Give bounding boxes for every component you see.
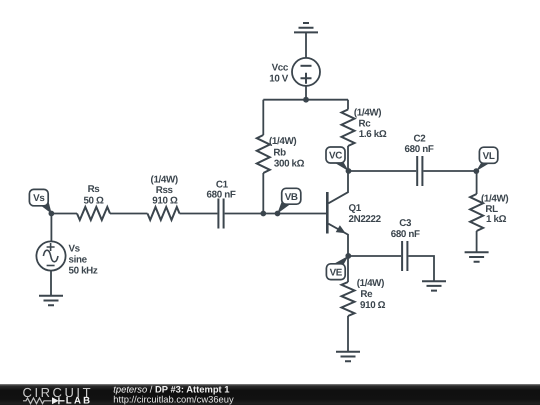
voltage source Vcc 10 V	[292, 58, 320, 86]
wire VE to Re	[347, 256, 349, 282]
logo diode	[52, 397, 59, 404]
voltage source Vs sine	[36, 241, 65, 270]
svg-text:Rb: Rb	[273, 147, 286, 158]
node Vs junction dot	[49, 211, 55, 217]
wire Vs source to ground	[50, 271, 52, 296]
svg-text:300 kΩ: 300 kΩ	[274, 158, 305, 169]
label Vs sine 50 kHz	[69, 244, 98, 277]
svg-text:C3: C3	[399, 218, 412, 229]
resistor Rss	[148, 207, 180, 220]
wire top rail	[263, 99, 348, 101]
label Rb 300 kΩ (1/4W)	[269, 136, 305, 169]
node flag VL	[476, 147, 498, 171]
svg-text:(1/4W): (1/4W)	[151, 175, 178, 186]
svg-text:(1/4W): (1/4W)	[481, 193, 508, 204]
svg-text:RL: RL	[485, 204, 498, 215]
resistor RL	[470, 194, 483, 231]
svg-text:1.6 kΩ: 1.6 kΩ	[359, 129, 387, 140]
wire Rss to C1	[180, 213, 218, 215]
wire Vs node down to source	[50, 214, 52, 242]
wire Re to ground	[347, 316, 349, 352]
label Vcc 10 V	[269, 63, 289, 85]
resistor Rs	[77, 207, 110, 220]
wire Rs to Rss	[110, 213, 148, 215]
wire Rb to base rail	[262, 173, 264, 214]
svg-text:(1/4W): (1/4W)	[354, 107, 381, 118]
svg-text:2N2222: 2N2222	[349, 214, 382, 225]
wire VL to RL	[476, 171, 478, 194]
svg-text:VL: VL	[483, 151, 495, 162]
wire Vcc to top rail	[305, 86, 307, 100]
label Re 910 Ω (1/4W)	[357, 278, 386, 311]
label Rs 50 Ω	[83, 184, 104, 206]
svg-text:(1/4W): (1/4W)	[269, 136, 296, 147]
wire C3 to ground	[408, 256, 434, 281]
svg-text:10 V: 10 V	[269, 74, 289, 85]
label Rc 1.6 kΩ (1/4W)	[354, 107, 387, 140]
label Rss 910 Ω (1/4W)	[151, 175, 178, 207]
node flag VE	[326, 256, 348, 280]
wire top rail to Rb	[262, 100, 264, 135]
svg-text:VE: VE	[330, 267, 343, 278]
label C1 680 nF	[207, 179, 236, 200]
wire RL to ground	[476, 231, 478, 252]
transistor Q1 2N2222	[327, 171, 348, 256]
resistor Rc	[342, 110, 355, 147]
footer bar	[0, 384, 540, 405]
node flag VC	[326, 147, 349, 171]
svg-text:Q1: Q1	[349, 203, 362, 214]
svg-text:VB: VB	[285, 192, 298, 203]
label C3 680 nF	[391, 218, 420, 240]
node flag VB	[277, 188, 301, 214]
node VB junction dot	[275, 211, 281, 217]
capacitor C2	[417, 156, 422, 186]
wire Rc to VC node	[347, 146, 349, 171]
ground GND-Vs	[39, 296, 63, 305]
wire VC to C2	[349, 170, 417, 172]
svg-text:(1/4W): (1/4W)	[357, 278, 384, 289]
node VE junction dot	[345, 253, 351, 259]
svg-text:VC: VC	[329, 151, 342, 162]
wire Vs node to Rs	[51, 213, 77, 215]
svg-text:http://circuitlab.com/cw36euy: http://circuitlab.com/cw36euy	[113, 394, 234, 405]
svg-text:910 Ω: 910 Ω	[360, 300, 386, 311]
ground GND-Re	[336, 352, 360, 361]
svg-text:Vs: Vs	[69, 244, 81, 255]
svg-text:LAB: LAB	[66, 395, 93, 405]
svg-text:50 kHz: 50 kHz	[69, 266, 98, 277]
ground GND-C3	[422, 281, 446, 290]
node VL junction dot	[473, 168, 479, 174]
svg-text:Vs: Vs	[33, 193, 45, 204]
capacitor C1	[218, 199, 223, 229]
svg-text:680 nF: 680 nF	[391, 229, 420, 240]
svg-text:680 nF: 680 nF	[405, 144, 434, 155]
svg-text:Rs: Rs	[88, 184, 101, 195]
wire C2 to VL	[423, 170, 476, 172]
label Q1 2N2222	[349, 203, 382, 225]
wire C1 to Q1 base	[225, 213, 327, 215]
svg-text:50 Ω: 50 Ω	[83, 195, 104, 206]
svg-text:sine: sine	[69, 255, 88, 266]
ground GND-top (inverted, above Vcc)	[294, 23, 318, 32]
node junction at Vcc/top rail	[303, 97, 309, 103]
svg-text:910 Ω: 910 Ω	[152, 195, 178, 206]
svg-text:Re: Re	[360, 289, 373, 300]
svg-text:Rc: Rc	[359, 119, 372, 130]
capacitor C3	[402, 241, 407, 271]
svg-text:Vcc: Vcc	[272, 63, 289, 74]
node VC junction dot	[346, 168, 352, 174]
label RL 1 kΩ (1/4W)	[481, 193, 508, 225]
wire top-ground to Vcc	[305, 32, 307, 58]
wire VE to C3	[348, 255, 401, 257]
wire top rail to Rc	[347, 100, 349, 110]
label C2 680 nF	[405, 134, 434, 155]
ground GND-RL	[465, 252, 489, 261]
svg-text:680 nF: 680 nF	[207, 190, 236, 201]
svg-text:1 kΩ: 1 kΩ	[486, 214, 507, 225]
logo resistor zigzag	[23, 398, 52, 404]
node flag Vs	[29, 189, 51, 213]
resistor Rb	[257, 135, 270, 173]
node Rb junction dot	[260, 211, 266, 217]
resistor Re	[342, 282, 355, 316]
